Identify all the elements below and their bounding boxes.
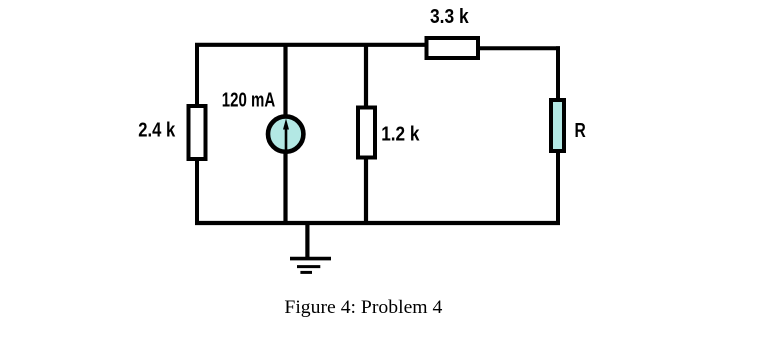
current source arrow xyxy=(285,126,288,150)
resistor R3 3.3 k xyxy=(427,38,479,58)
wire: right vertical branch xyxy=(556,46,560,225)
wire: 1.2k branch vertical xyxy=(364,43,368,225)
wire: bottom horizontal xyxy=(195,221,560,225)
svg-text:1.2 k: 1.2 k xyxy=(381,122,420,145)
wire: current source branch vertical xyxy=(283,43,287,225)
wire: top horizontal right segment xyxy=(477,46,560,50)
current source I1 xyxy=(268,116,303,151)
svg-text:R: R xyxy=(575,119,586,142)
svg-text:Figure 4: Problem 4: Figure 4: Problem 4 xyxy=(284,298,442,318)
wire: left vertical branch xyxy=(195,43,199,225)
svg-text:2.4 k: 2.4 k xyxy=(138,119,175,142)
resistor R1 2.4 k xyxy=(189,106,206,159)
svg-text:120 mA: 120 mA xyxy=(222,88,276,111)
ground xyxy=(305,223,309,258)
svg-text:3.3 k: 3.3 k xyxy=(430,5,469,28)
resistor R xyxy=(551,100,564,151)
wire: top horizontal left segment xyxy=(195,43,428,47)
resistor R2 1.2 k xyxy=(358,108,375,158)
